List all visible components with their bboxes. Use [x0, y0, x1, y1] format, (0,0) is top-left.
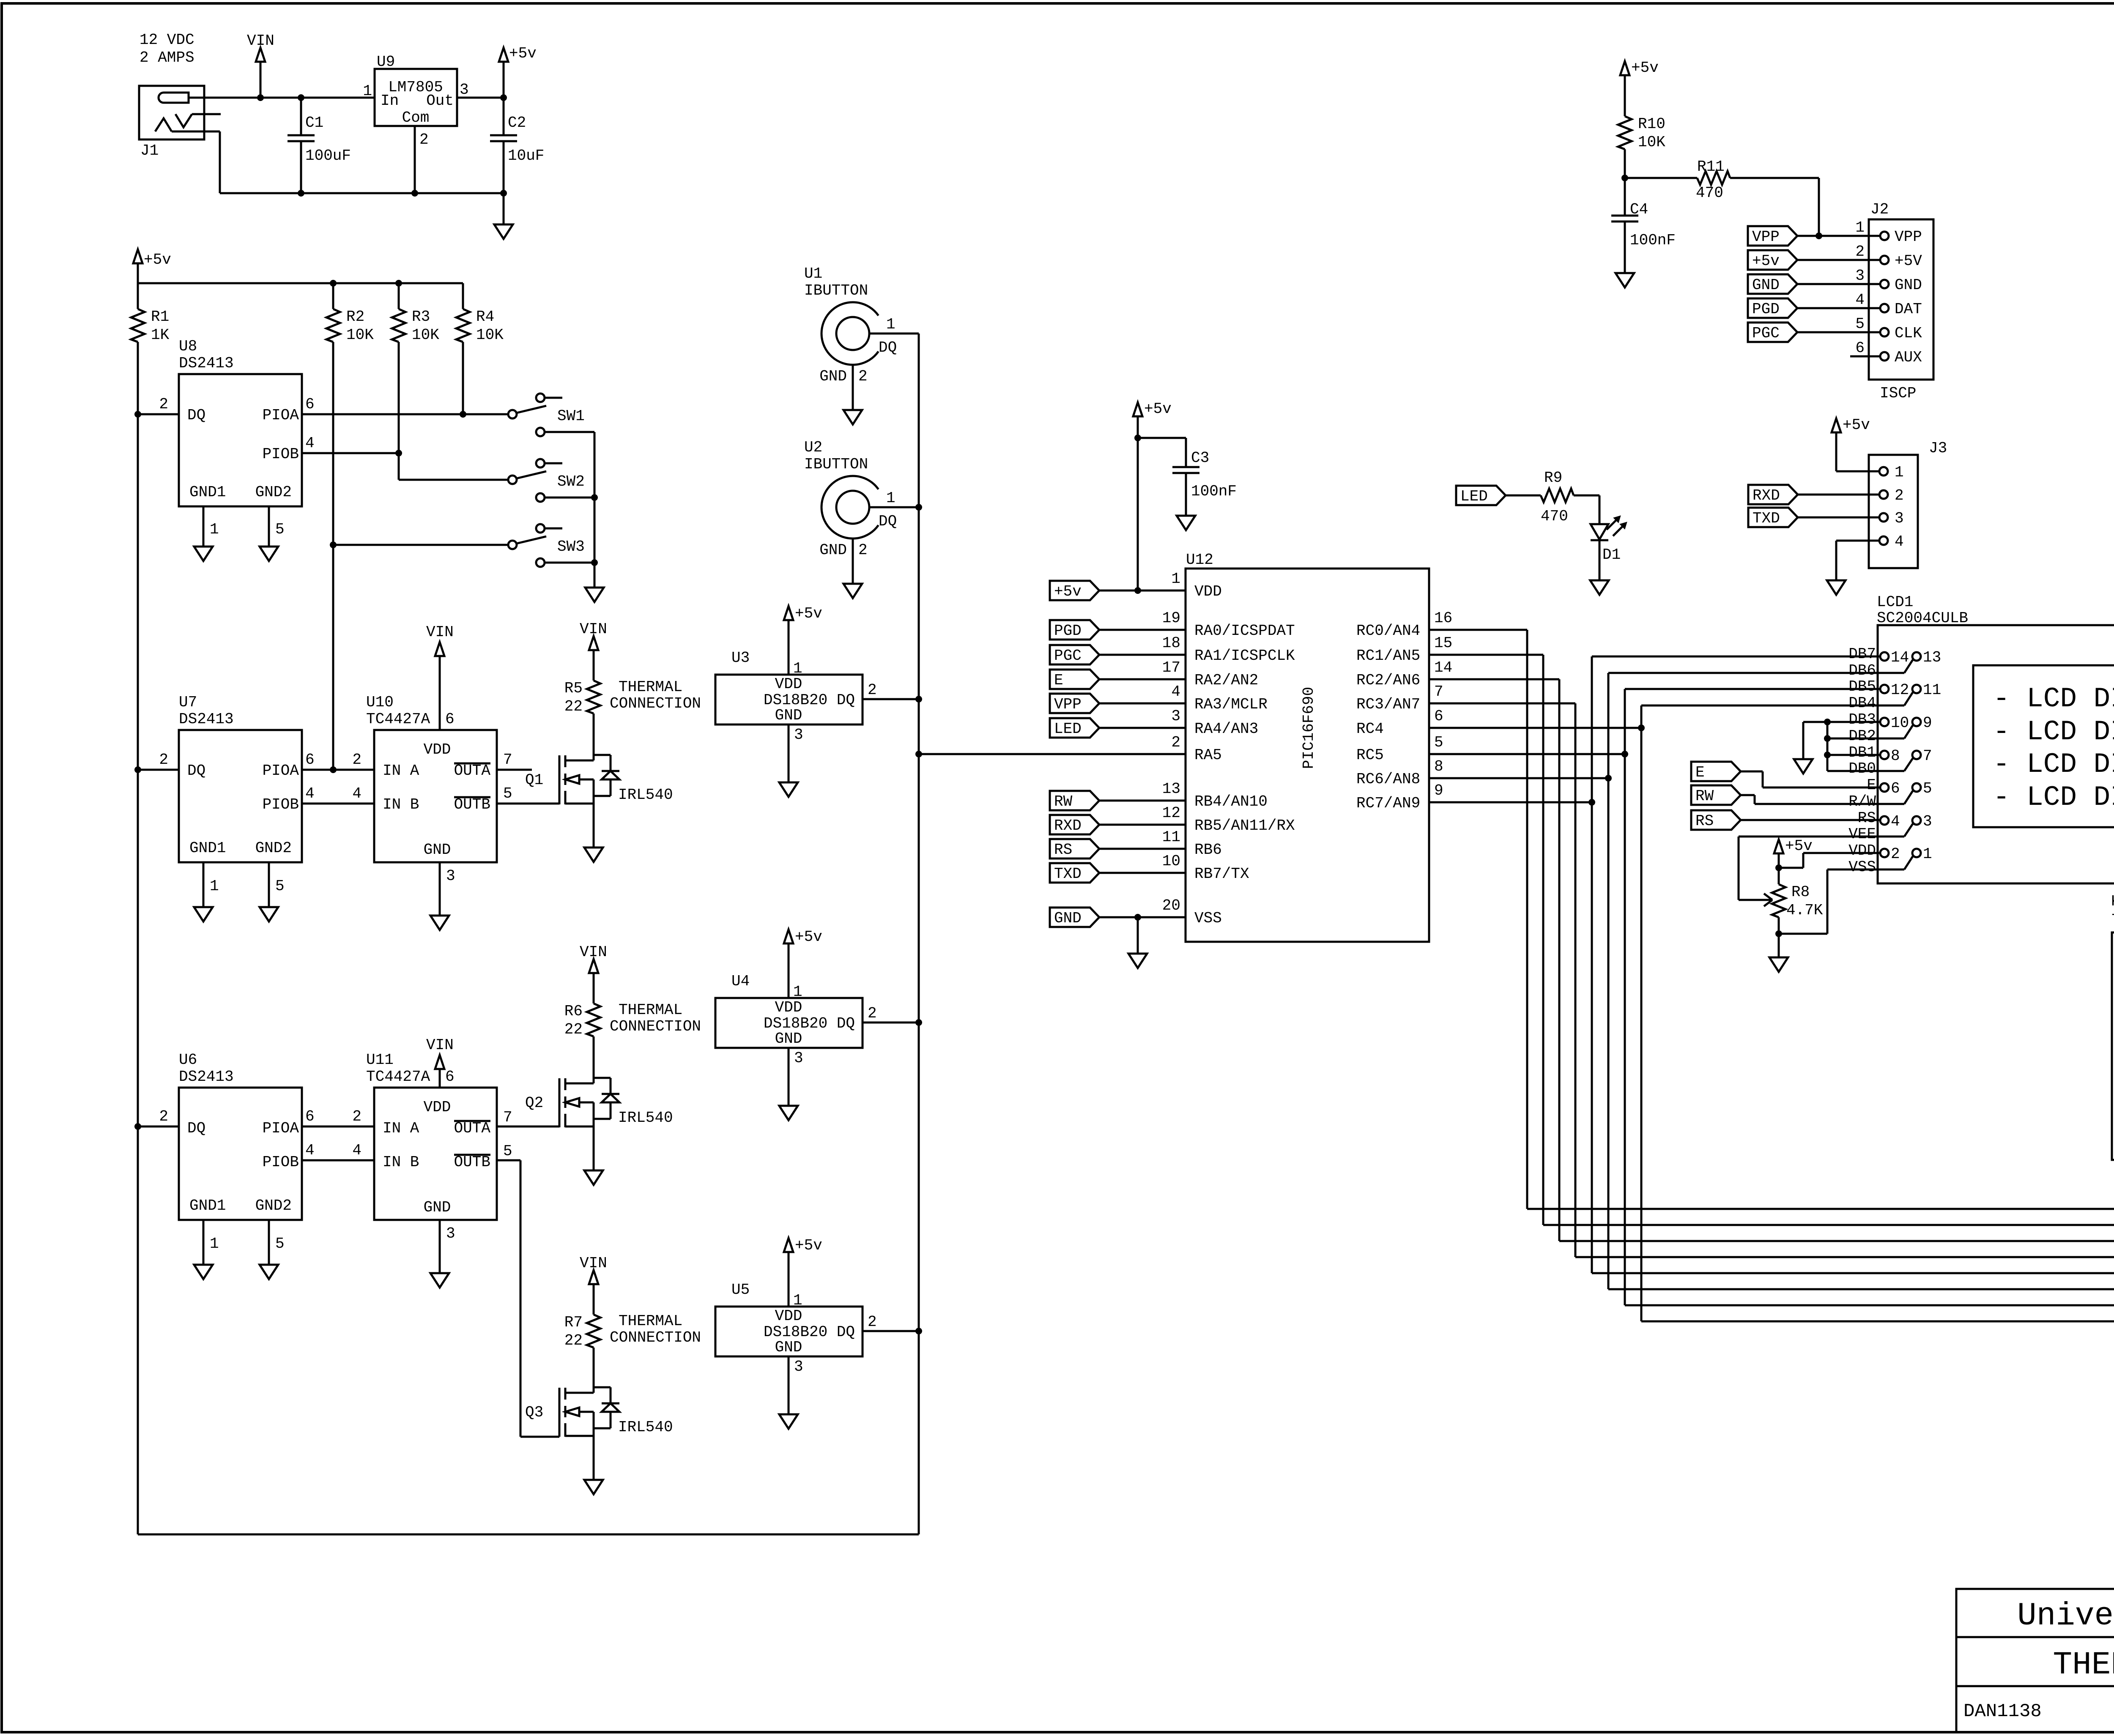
svg-text:10K: 10K: [346, 326, 374, 344]
svg-text:R2: R2: [346, 308, 364, 325]
svg-text:+5v: +5v: [144, 251, 171, 268]
svg-text:RC4: RC4: [1356, 720, 1384, 738]
svg-text:U11: U11: [366, 1051, 394, 1069]
svg-text:10K: 10K: [476, 326, 504, 344]
svg-text:U7: U7: [179, 694, 197, 711]
ground switch rail: [585, 588, 604, 602]
svg-text:5: 5: [1434, 734, 1443, 751]
svg-text:R7: R7: [564, 1314, 583, 1331]
connector J3: [1869, 455, 1918, 568]
svg-text:OUTB: OUTB: [454, 796, 490, 813]
svg-text:Com: Com: [402, 109, 430, 126]
svg-text:3: 3: [1895, 510, 1904, 527]
IC U10 TC4427A: [374, 730, 497, 862]
svg-text:RA3/MCLR: RA3/MCLR: [1194, 696, 1268, 713]
sensor U5 DS18B20: [715, 1307, 863, 1356]
wire SW3 from R2: [333, 544, 508, 546]
node DB2 gnd: [1824, 735, 1831, 742]
wire DB6 bus RC6 to LCD and keypad 4: [1607, 673, 1610, 1289]
svg-text:1: 1: [886, 316, 895, 333]
svg-text:R/W: R/W: [1848, 793, 1876, 810]
svg-text:GND: GND: [1054, 910, 1082, 927]
LCD diagonal stubs: [1904, 660, 1913, 673]
svg-text:IRL540: IRL540: [618, 1419, 673, 1436]
node RA5 tap: [915, 751, 922, 757]
node DB1 gnd: [1824, 752, 1831, 758]
title block frame: [1956, 1589, 2114, 1732]
svg-text:13: 13: [1923, 649, 1941, 666]
svg-text:GND: GND: [775, 1030, 802, 1047]
svg-text:VSS: VSS: [1194, 910, 1222, 927]
svg-text:C2: C2: [508, 114, 526, 131]
svg-text:7207-1610203: 7207-1610203: [2111, 911, 2114, 929]
connector J1 barrel jack: [139, 86, 204, 139]
wire J3 pin 4 to ground: [1836, 540, 1879, 542]
node SW3 rail: [591, 559, 598, 566]
svg-text:ISCP: ISCP: [1880, 385, 1916, 402]
svg-text:VPP: VPP: [1752, 228, 1780, 246]
svg-text:TC4427A: TC4427A: [366, 711, 430, 728]
svg-text:9: 9: [1434, 782, 1443, 799]
net flag TXD at RB7: [1050, 863, 1099, 883]
wire RC0 to keypad A: [1429, 629, 1527, 631]
wire +5v rail: [138, 282, 463, 284]
node VSS ground junction: [1134, 914, 1141, 921]
wire U5 GND pin 3: [788, 1356, 790, 1414]
svg-text:2: 2: [352, 1108, 361, 1125]
node U8 DQ tap: [134, 411, 141, 418]
svg-text:RC0/AN4: RC0/AN4: [1356, 622, 1420, 640]
svg-text:IN B: IN B: [383, 796, 419, 813]
svg-text:6: 6: [445, 711, 455, 728]
svg-text:1: 1: [210, 878, 219, 895]
ground U8 GND2: [260, 547, 278, 561]
wire VEE to R8 wiper: [1739, 836, 1904, 838]
net flag RW to LCD pin 5: [1691, 785, 1741, 805]
svg-text:PIOA: PIOA: [263, 762, 299, 779]
svg-text:RC7/AN9: RC7/AN9: [1356, 795, 1420, 812]
switch SW3: [508, 541, 517, 549]
svg-text:IRL540: IRL540: [618, 1109, 673, 1126]
svg-text:14: 14: [1891, 649, 1909, 666]
IC U6 DS2413: [179, 1088, 302, 1220]
svg-text:VDD: VDD: [424, 741, 451, 758]
wire U11 GND pin 3: [439, 1220, 441, 1273]
wire DB5 bus RC5 to LCD and keypad D: [1624, 689, 1626, 1305]
svg-text:3: 3: [446, 867, 455, 885]
IC U12 PIC16F690: [1186, 569, 1429, 942]
svg-text:E: E: [1867, 776, 1876, 794]
svg-text:U8: U8: [179, 338, 197, 355]
wire U6 PIOB pin 4 to U11 IN B: [302, 1159, 374, 1162]
ground U6 GND1: [194, 1265, 213, 1279]
wire U4 GND pin 3: [788, 1048, 790, 1106]
net flag E to LCD pin 6: [1691, 762, 1741, 781]
net flag RW at RB4: [1050, 791, 1099, 810]
svg-text:- LCD DISPLAY 4x20 -: - LCD DISPLAY 4x20 -: [1993, 749, 2114, 780]
wire RC2 to keypad 1: [1429, 678, 1559, 681]
svg-text:DS18B20 DQ: DS18B20 DQ: [764, 1015, 855, 1032]
resistor R2 10K: [332, 283, 334, 309]
wire U7 GND2 pin 5: [268, 862, 270, 907]
node VIN junction: [257, 94, 264, 101]
node U2 DQ tap: [915, 504, 922, 511]
svg-text:VSS: VSS: [1848, 858, 1876, 876]
node C2 ground: [500, 190, 507, 197]
svg-text:7: 7: [1434, 683, 1443, 700]
svg-text:D1: D1: [1602, 546, 1621, 563]
svg-text:3: 3: [794, 1358, 803, 1375]
svg-text:U6: U6: [179, 1051, 197, 1069]
svg-text:Q2: Q2: [525, 1094, 543, 1112]
switch SW2: [508, 476, 517, 484]
svg-text:In: In: [381, 92, 399, 109]
svg-text:12: 12: [1162, 804, 1180, 822]
svg-text:VDD: VDD: [775, 999, 802, 1016]
svg-text:PIC16F690: PIC16F690: [1300, 687, 1317, 769]
svg-text:7: 7: [1923, 747, 1932, 765]
ground U7 GND1: [194, 907, 213, 921]
svg-text:4.7K: 4.7K: [1786, 902, 1823, 919]
svg-text:DQ: DQ: [187, 1120, 205, 1137]
svg-text:RC6/AN8: RC6/AN8: [1356, 771, 1420, 788]
svg-text:DB6: DB6: [1848, 662, 1876, 679]
svg-text:VEE: VEE: [1848, 826, 1876, 843]
wire U3 GND pin 3: [788, 724, 790, 782]
node R10 C4 R11 junction: [1621, 175, 1628, 181]
node U5 DQ tap: [915, 1328, 922, 1334]
svg-text:5: 5: [275, 1235, 285, 1252]
node C1 tap: [298, 94, 304, 101]
node SW2 rail: [591, 494, 598, 501]
svg-text:11: 11: [1162, 828, 1180, 846]
svg-text:AUX: AUX: [1895, 349, 1922, 366]
svg-text:E: E: [1054, 672, 1063, 689]
svg-text:1: 1: [210, 521, 219, 538]
svg-text:- LCD DISPLAY 4x20 -: - LCD DISPLAY 4x20 -: [1993, 683, 2114, 715]
wire U8 PIOB pin 4: [302, 452, 399, 454]
svg-text:R6: R6: [564, 1003, 583, 1020]
svg-text:DAT: DAT: [1895, 301, 1922, 318]
svg-text:18: 18: [1162, 634, 1180, 652]
wire U6 GND1 pin 1: [203, 1220, 205, 1265]
svg-text:LED: LED: [1054, 720, 1082, 738]
svg-text:1: 1: [363, 82, 372, 100]
sensor U4 DS18B20: [715, 998, 863, 1048]
svg-text:6: 6: [305, 1108, 315, 1125]
svg-text:1: 1: [210, 1235, 219, 1252]
svg-text:RC5: RC5: [1356, 746, 1384, 764]
svg-text:5: 5: [503, 1143, 512, 1160]
svg-text:100nF: 100nF: [1191, 483, 1237, 500]
power flag +5v left rail: [133, 249, 142, 263]
power flag +5v above R10: [1620, 61, 1629, 75]
wire J1 pin to LM7805 In: [188, 97, 375, 99]
svg-text:4: 4: [305, 785, 315, 802]
svg-text:RS: RS: [1054, 841, 1072, 858]
svg-text:RW: RW: [1054, 793, 1073, 810]
svg-text:+5v: +5v: [1144, 400, 1172, 418]
IC U8 DS2413: [179, 374, 302, 506]
svg-text:22: 22: [564, 1021, 583, 1038]
ground LCD data low: [1794, 759, 1813, 774]
svg-text:3: 3: [1171, 708, 1180, 725]
svg-text:GND: GND: [775, 1339, 802, 1356]
svg-text:470: 470: [1541, 508, 1568, 525]
svg-text:3: 3: [794, 1050, 803, 1067]
svg-text:C3: C3: [1191, 449, 1209, 467]
svg-text:PIOB: PIOB: [263, 1154, 299, 1171]
svg-text:U12: U12: [1186, 551, 1213, 569]
svg-text:16: 16: [1434, 610, 1452, 627]
svg-text:2: 2: [868, 1313, 877, 1331]
svg-text:6: 6: [1891, 780, 1900, 797]
svg-text:20: 20: [1162, 897, 1180, 914]
node R8 bottom: [1775, 930, 1782, 937]
svg-text:4: 4: [1895, 533, 1904, 550]
wire LM7805 Com pin 2: [414, 126, 416, 193]
node R8 top: [1775, 864, 1782, 871]
svg-text:2: 2: [1895, 487, 1904, 504]
svg-text:4: 4: [352, 785, 361, 802]
ground D1: [1590, 580, 1609, 595]
svg-text:+5v: +5v: [795, 1237, 822, 1254]
svg-text:4: 4: [1855, 291, 1865, 309]
svg-text:4: 4: [1891, 813, 1900, 830]
svg-text:GND: GND: [819, 368, 847, 385]
svg-text:J1: J1: [140, 142, 159, 159]
svg-text:5: 5: [1923, 780, 1932, 797]
svg-text:VDD: VDD: [424, 1099, 451, 1116]
svg-text:LED: LED: [1460, 488, 1488, 505]
svg-text:1K: 1K: [151, 326, 170, 344]
svg-text:+5v: +5v: [1054, 583, 1082, 600]
node C3 tap: [1134, 435, 1141, 441]
svg-text:KP1: KP1: [2111, 893, 2114, 910]
wire RC6 row: [1429, 777, 1608, 779]
svg-text:DAN1138: DAN1138: [1963, 1701, 2042, 1722]
capacitor C3 100nF: [1138, 437, 1186, 439]
svg-text:22: 22: [564, 698, 583, 715]
svg-text:SW1: SW1: [557, 407, 585, 425]
svg-text:DQ: DQ: [187, 407, 205, 424]
wire RC5 row: [1429, 753, 1625, 755]
wire U8 DQ pin 2: [138, 413, 179, 416]
svg-text:- LCD DISPLAY 4x20 -: - LCD DISPLAY 4x20 -: [1993, 782, 2114, 813]
svg-text:DQ: DQ: [879, 339, 897, 356]
svg-text:IN B: IN B: [383, 1154, 419, 1171]
svg-text:DB4: DB4: [1848, 694, 1876, 712]
node R2 to SW3 wire: [330, 541, 337, 548]
net flag PGD to J2 pin 4: [1748, 298, 1797, 318]
net flag RXD at RB5: [1050, 815, 1099, 834]
svg-text:R4: R4: [476, 308, 494, 325]
wire PIOB to SW2: [398, 453, 400, 480]
svg-text:RC2/AN6: RC2/AN6: [1356, 672, 1420, 689]
svg-text:+5v: +5v: [795, 605, 822, 622]
svg-text:19: 19: [1162, 610, 1180, 627]
connector J2 ISCP: [1869, 219, 1933, 380]
svg-text:11: 11: [1923, 681, 1941, 699]
svg-text:2: 2: [858, 541, 868, 559]
svg-text:10: 10: [1162, 853, 1180, 870]
svg-text:DS18B20 DQ: DS18B20 DQ: [764, 692, 855, 709]
node VDD +5v junction: [1134, 587, 1141, 594]
svg-text:GND2: GND2: [255, 1197, 292, 1214]
svg-text:THERMAL CONTROLLER: THERMAL CONTROLLER: [2053, 1647, 2114, 1683]
svg-text:2: 2: [159, 396, 168, 413]
wire U10 OUTB to Q1 gate: [497, 803, 559, 805]
resistor R1 1K: [137, 283, 139, 309]
svg-text:GND1: GND1: [189, 484, 226, 501]
svg-text:3: 3: [1855, 267, 1865, 284]
svg-text:TXD: TXD: [1054, 865, 1082, 883]
wire U5 DQ pin 2 to bus: [863, 1330, 919, 1332]
node RC7 bus: [1588, 799, 1595, 806]
svg-text:2: 2: [858, 368, 868, 385]
wire U2 GND pin 2: [852, 539, 854, 584]
svg-text:U2: U2: [804, 439, 822, 456]
svg-text:J2: J2: [1870, 201, 1889, 218]
svg-text:5: 5: [275, 878, 285, 895]
wire DB4 bus RC4 to LCD and keypad C: [1640, 705, 1643, 1321]
wire DB3 DB2 DB1 DB0 ground group: [1803, 721, 1880, 723]
svg-text:470: 470: [1696, 184, 1723, 202]
wire U7 PIOB pin 4 to U10 IN B: [302, 803, 374, 805]
svg-text:14: 14: [1434, 659, 1452, 676]
svg-text:DQ: DQ: [187, 762, 205, 779]
svg-text:6: 6: [305, 751, 315, 768]
node U4 DQ tap: [915, 1019, 922, 1026]
svg-text:6: 6: [1855, 339, 1865, 357]
svg-text:RA2/AN2: RA2/AN2: [1194, 672, 1258, 689]
net flag RXD to J3 pin 2: [1748, 485, 1798, 504]
net flag RS to LCD pin 4: [1691, 810, 1741, 830]
svg-text:CONNECTION: CONNECTION: [610, 695, 701, 712]
node C1 ground: [298, 190, 304, 197]
svg-text:RA1/ICSPCLK: RA1/ICSPCLK: [1194, 647, 1295, 664]
svg-text:GND: GND: [1895, 276, 1922, 294]
net flag E at RA2: [1050, 670, 1099, 689]
power flag +5v to J3 pin 1: [1832, 418, 1841, 432]
power flag +5v at C2: [499, 48, 508, 62]
svg-text:100uF: 100uF: [305, 147, 351, 164]
node RC5 bus: [1621, 751, 1628, 757]
node R3 top: [395, 280, 402, 287]
node U3 DQ tap: [915, 696, 922, 703]
ground PIC VSS: [1137, 917, 1139, 954]
net flag RS at RB6: [1050, 839, 1099, 858]
power flag +5v at R8: [1774, 839, 1783, 853]
resistor R4 10K: [462, 283, 464, 309]
svg-text:RB7/TX: RB7/TX: [1194, 865, 1249, 883]
svg-text:RB6: RB6: [1194, 841, 1222, 858]
svg-text:DB3: DB3: [1848, 711, 1876, 728]
svg-text:VDD: VDD: [1194, 583, 1222, 600]
svg-text:PIOB: PIOB: [263, 446, 299, 463]
svg-text:TXD: TXD: [1753, 510, 1780, 527]
capacitor C1 100uF: [300, 98, 302, 135]
svg-text:RXD: RXD: [1054, 817, 1082, 834]
net flag PGC to J2 pin 5: [1748, 323, 1797, 342]
svg-text:DS2413: DS2413: [179, 1068, 234, 1085]
svg-text:GND2: GND2: [255, 484, 292, 501]
switch SW1: [508, 410, 517, 418]
svg-text:DB1: DB1: [1848, 744, 1876, 761]
svg-text:2: 2: [419, 131, 429, 148]
wire DQ bus vertical: [918, 334, 920, 1534]
svg-text:3: 3: [460, 81, 469, 98]
svg-text:2: 2: [868, 681, 877, 699]
wire RC4 row: [1429, 727, 1641, 729]
wire RC1 to keypad B: [1429, 654, 1543, 656]
svg-text:2: 2: [352, 751, 361, 768]
svg-text:GND1: GND1: [189, 839, 226, 857]
svg-text:10K: 10K: [1638, 134, 1665, 151]
svg-text:GND1: GND1: [189, 1197, 226, 1214]
svg-text:SW3: SW3: [557, 538, 585, 555]
node DB3 gnd: [1824, 719, 1831, 725]
svg-text:9: 9: [1923, 714, 1932, 732]
svg-text:12: 12: [1891, 681, 1909, 699]
svg-text:R8: R8: [1791, 883, 1810, 901]
resistor R10 10K: [1618, 116, 1632, 149]
svg-text:- LCD DISPLAY 4x20 -: - LCD DISPLAY 4x20 -: [1993, 716, 2114, 748]
wire U2 DQ pin 1: [869, 506, 919, 508]
node U7 DQ tap: [134, 766, 141, 773]
svg-text:IN A: IN A: [383, 1120, 419, 1137]
svg-text:6: 6: [305, 396, 315, 413]
net flag LED: [1456, 486, 1506, 505]
svg-text:VDD: VDD: [775, 1307, 802, 1325]
ground U11 GND: [430, 1273, 449, 1288]
svg-text:IN A: IN A: [383, 762, 419, 779]
potentiometer R8 4.7K: [1778, 868, 1780, 884]
svg-text:8: 8: [1434, 758, 1443, 775]
svg-text:U5: U5: [731, 1281, 750, 1299]
svg-text:R1: R1: [151, 308, 169, 325]
svg-text:15: 15: [1434, 634, 1452, 652]
node R3 bottom on U8 PIOB: [395, 450, 402, 457]
svg-text:U4: U4: [731, 973, 750, 990]
capacitor C2 10uF: [503, 98, 505, 135]
svg-text:5: 5: [503, 785, 512, 802]
wire U7 PIOA pin 6 to U10 IN A: [302, 769, 374, 771]
svg-text:PIOA: PIOA: [263, 407, 299, 424]
svg-text:RXD: RXD: [1753, 487, 1780, 504]
wire U10 OUTA stub pin 7: [497, 769, 532, 771]
diode D1 LED: [1599, 495, 1601, 524]
ground U2 GND: [843, 584, 862, 598]
node RC4 bus: [1638, 724, 1645, 731]
net flag VPP to J2 pin 1: [1748, 226, 1797, 246]
svg-text:2: 2: [159, 1108, 168, 1125]
svg-text:6: 6: [1434, 708, 1443, 725]
svg-text:RC3/AN7: RC3/AN7: [1356, 696, 1420, 713]
svg-text:PGD: PGD: [1054, 622, 1082, 640]
svg-text:CONNECTION: CONNECTION: [610, 1329, 701, 1346]
svg-text:13: 13: [1162, 780, 1180, 798]
ground U3 GND: [779, 782, 798, 797]
svg-text:2: 2: [868, 1005, 877, 1022]
svg-text:1: 1: [1171, 570, 1180, 588]
ground U10 GND: [430, 916, 449, 930]
svg-text:U10: U10: [366, 694, 394, 711]
ground C3: [1177, 516, 1195, 530]
ground symbol below C2: [503, 193, 505, 224]
svg-text:CONNECTION: CONNECTION: [610, 1018, 701, 1035]
svg-text:IBUTTON: IBUTTON: [804, 282, 868, 299]
